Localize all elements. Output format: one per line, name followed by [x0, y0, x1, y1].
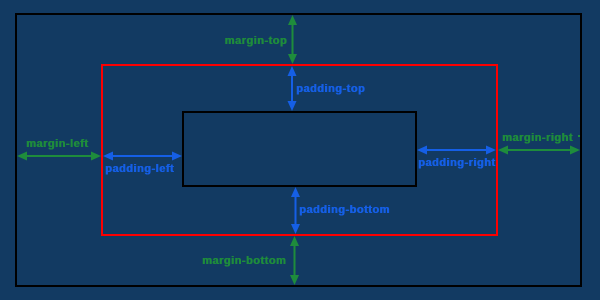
label margin-bottom [202, 256, 286, 267]
label padding-top [296, 84, 365, 95]
margin-right arrow [498, 146, 580, 155]
content rectangle (inner black) [182, 111, 417, 187]
stray green dot near right border [578, 135, 580, 137]
label margin-top [225, 36, 287, 47]
padding-bottom arrow [291, 187, 300, 234]
label padding-right [418, 158, 495, 169]
margin-top arrow [288, 15, 297, 64]
label margin-left [26, 139, 88, 150]
margin-left arrow [17, 152, 101, 161]
label padding-bottom [299, 205, 390, 216]
padding-top arrow [288, 66, 297, 111]
padding-right arrow [417, 146, 496, 155]
label margin-right [502, 133, 573, 144]
margin-bottom arrow [290, 236, 299, 285]
padding-left arrow [103, 152, 182, 161]
margin rectangle (red) [101, 64, 498, 236]
label padding-left [105, 164, 174, 175]
